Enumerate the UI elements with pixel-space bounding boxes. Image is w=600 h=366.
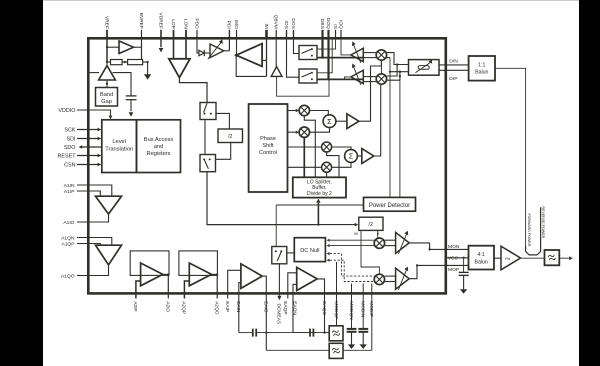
svg-text:DOQ: DOQ: [325, 18, 331, 29]
block LO Splitter Buffer Divide by 2: [293, 177, 346, 197]
wire internal to SWB: [317, 40, 332, 73]
resistor R2: [128, 60, 143, 65]
capacitor VCC bypass: [463, 258, 465, 272]
svg-text:VDREF: VDREF: [157, 13, 163, 29]
block divide-by-2 (LO): [218, 129, 243, 143]
svg-text:Σ: Σ: [327, 117, 332, 126]
wire DOS to switch SWA: [294, 40, 300, 54]
wire amp to cap C1: [113, 73, 131, 96]
svg-text:A1QO: A1QO: [61, 273, 75, 279]
mixer M4: [374, 274, 384, 284]
attenuator block: [409, 60, 440, 76]
svg-text:VDDIO: VDDIO: [58, 108, 75, 114]
capacitor MODQN bypass: [347, 328, 357, 330]
buffer T2: [362, 149, 374, 164]
filter block (output): [545, 250, 560, 265]
op-amp reference amp (up): [99, 66, 116, 80]
wire Q pair to M4 a (dashed): [330, 254, 375, 277]
capacitor MODIN bypass: [358, 328, 368, 330]
svg-text:PDO: PDO: [193, 18, 199, 29]
svg-text:VREF: VREF: [103, 16, 109, 29]
capacitor C1: [126, 95, 137, 97]
pin IOQ (top): [340, 30, 342, 40]
svg-text:A2IP: A2IP: [132, 301, 138, 311]
arrow C1 to registers: [130, 100, 132, 112]
wire EAIP input: [228, 270, 241, 298]
wire IOS to switch SWB: [287, 40, 300, 78]
wire sum2 to buffer T2: [357, 155, 361, 157]
wire stub chip edge to amp: [90, 72, 100, 74]
wire I pair to M3 a: [330, 239, 375, 241]
wire A2QO output: [212, 273, 218, 275]
svg-text:/2: /2: [369, 222, 374, 228]
wire A2IP input: [136, 281, 141, 299]
amplifier PA: [501, 246, 521, 270]
wire LON into amp: [185, 40, 187, 59]
wire QBVM down: [275, 40, 277, 67]
wire buffer out to BVREF: [134, 46, 142, 48]
wire PA output: [521, 257, 545, 259]
svg-text:Divide by 2: Divide by 2: [307, 191, 332, 197]
wire M2 to attenuator: [387, 65, 398, 77]
wire A1QO out: [77, 265, 109, 276]
pin VDREF (top): [160, 30, 162, 40]
svg-text:Translation: Translation: [105, 146, 133, 152]
block 4:1 Balun: [469, 246, 495, 270]
wire IS to SWA: [317, 40, 336, 50]
pin PDO (top): [196, 30, 198, 40]
wire MODQN: [351, 284, 353, 329]
block Power Detector: [364, 197, 416, 211]
arrow PSC to mixer MI1: [288, 110, 296, 112]
wire A1QN into amp: [77, 238, 112, 246]
wire LO to splitter: [207, 172, 315, 225]
svg-text:Level: Level: [112, 139, 126, 145]
op-amp error amp I: [241, 264, 262, 289]
wire M4 to T4 pair: [385, 275, 396, 277]
svg-text:Bus Access: Bus Access: [144, 137, 174, 143]
mixer M1 (I up-convert): [376, 50, 386, 60]
mixer MQ2: [322, 162, 332, 172]
wire amp to band gap: [106, 80, 108, 88]
op-amp main buffer (left): [236, 44, 262, 67]
wire EAQP input: [288, 273, 297, 299]
buffer stage (up): [271, 67, 282, 77]
wire tap to power detector 2: [399, 75, 401, 77]
wire Q pair to M4 b (dashed): [330, 260, 375, 281]
svg-text:Gap: Gap: [101, 99, 112, 105]
wire VGA2 to M2 pair: [363, 76, 376, 78]
wire tap to power detector 1: [389, 58, 391, 198]
wire buffer base notch: [262, 59, 266, 61]
pin DBS (top): [321, 30, 323, 40]
wire T4 to MOP: [409, 265, 417, 278]
wire VGA1 to M1 pair: [363, 52, 376, 54]
svg-text:A2QP: A2QP: [181, 301, 187, 314]
capacitor series Q: [309, 329, 311, 337]
wire T2 to mixer M2 LO: [374, 84, 381, 156]
mixer MI1: [299, 105, 309, 115]
svg-text:MOP: MOP: [448, 267, 459, 273]
wire M3 to T3 pair: [385, 239, 396, 241]
svg-text:90: 90: [354, 232, 358, 236]
capacitor series I: [252, 329, 254, 337]
svg-text:Shift: Shift: [262, 143, 274, 149]
filter block Q (to MODQP): [329, 326, 343, 341]
block Bus Access and Registers: [137, 120, 181, 173]
svg-text:Balun: Balun: [475, 70, 488, 76]
wire VGA to PDI: [224, 50, 230, 52]
pin PDI (top): [228, 30, 230, 40]
wire VDDIO to registers: [77, 110, 111, 116]
svg-text:DCMEAS: DCMEAS: [276, 304, 282, 325]
amplifier detector VGA: [210, 44, 224, 58]
wire diode to VGA: [204, 52, 210, 54]
wire filter I to MODIP: [343, 349, 372, 351]
wire T1 to mixer M1 LO: [359, 60, 382, 121]
wire divider to SW2: [216, 143, 231, 160]
svg-text:EAIO: EAIO: [263, 301, 269, 313]
wire EAIO to filter I: [266, 349, 329, 351]
wire MI1 to sum1: [310, 111, 329, 115]
svg-text:IM: IM: [263, 23, 269, 28]
pin VREF (top): [106, 30, 108, 40]
op-amp LO input (down): [169, 59, 190, 78]
arrow VDREF into chip: [160, 40, 162, 48]
wire MON out: [430, 248, 469, 250]
op-amp A1 I (down): [96, 196, 122, 214]
wire PSC to mixer MQ1: [288, 146, 322, 148]
ground VCC: [460, 289, 467, 294]
block Phase Shift Control: [249, 104, 288, 192]
svg-text:A1QP: A1QP: [61, 241, 74, 247]
svg-text:PA: PA: [505, 256, 510, 261]
wire bus Q (thick): [317, 78, 363, 80]
buffer T1: [347, 114, 359, 129]
svg-text:/2: /2: [228, 134, 233, 140]
svg-text:4:1: 4:1: [478, 252, 485, 258]
op-amp VREF buffer: [119, 41, 134, 54]
wire M1 to attenuator: [387, 53, 409, 65]
svg-text:Registers: Registers: [146, 151, 170, 157]
wire MI2 LO feed: [303, 137, 305, 177]
svg-text:A1IO: A1IO: [63, 220, 74, 226]
svg-text:Control: Control: [259, 150, 277, 156]
summer S2: [345, 150, 358, 163]
pin DOS (top): [293, 30, 295, 40]
svg-text:EAQO: EAQO: [321, 301, 327, 315]
pin LON (top): [185, 30, 187, 40]
wire MOP out: [417, 264, 469, 266]
pin IS (top): [335, 30, 337, 40]
node between resistors: [122, 61, 128, 63]
wire PSC to mixer MQ2: [288, 166, 322, 168]
pin QBVM (top): [275, 30, 277, 40]
node IMO junction: [235, 54, 238, 57]
wire A1IO out: [77, 214, 109, 222]
wire M1 LO chain to M2: [380, 60, 382, 74]
pin BVREF (top): [141, 30, 143, 40]
wire MQ2 LO feed: [326, 172, 328, 177]
svg-text:IMO: IMO: [233, 20, 239, 29]
arrow DCMEAS: [277, 296, 281, 300]
svg-text:LON: LON: [182, 19, 188, 29]
wire VGA2 apex to bus: [345, 77, 351, 80]
svg-text:DOS: DOS: [290, 18, 296, 28]
block DC Null: [294, 238, 325, 262]
chip boundary: [88, 38, 446, 293]
pin IOS (top): [286, 30, 288, 40]
amplifier T4: [396, 268, 410, 289]
directional coupler loop: [526, 207, 541, 255]
ground MODQN: [348, 344, 355, 349]
block divide-by-2 (output): [359, 217, 383, 230]
switch SW3 (DC null): [272, 247, 287, 264]
wire EAQN input: [293, 284, 297, 332]
svg-text:FORWARD POWER: FORWARD POWER: [527, 214, 531, 247]
svg-text:A1IP: A1IP: [64, 189, 75, 195]
feedback box amp1: [130, 251, 169, 276]
amplifier VGA2 (Q): [351, 70, 363, 84]
wire A2QP input: [184, 281, 189, 299]
block 1:1 Balun: [469, 56, 495, 81]
svg-text:BVREF: BVREF: [138, 13, 144, 29]
wire divider to M4: [361, 230, 379, 274]
wire MQ1 LO feed: [327, 152, 339, 177]
mixer M3: [374, 238, 384, 248]
wire MODIN: [362, 284, 364, 329]
filter block I (to MODIP): [329, 343, 343, 358]
right black bar: [579, 0, 600, 366]
svg-text:IOS: IOS: [283, 21, 289, 29]
arrow PSC to mixer MI2: [288, 131, 296, 133]
wire DIN: [439, 64, 469, 66]
wire sum1 to buffer T1: [336, 120, 347, 122]
amplifier T3: [396, 232, 410, 253]
svg-text:IS: IS: [332, 24, 338, 29]
wire DOQ down: [327, 40, 329, 80]
wire MQ2 to sum2: [332, 162, 351, 167]
svg-text:EAIN: EAIN: [235, 301, 241, 313]
svg-text:and: and: [154, 144, 164, 150]
svg-text:CSN: CSN: [64, 162, 75, 168]
svg-text:A1QN: A1QN: [61, 235, 75, 241]
pin IMO (top): [236, 30, 238, 40]
svg-text:REVERSE POWER: REVERSE POWER: [541, 207, 545, 239]
wire EAQN to cap: [293, 332, 309, 334]
feedback box amp2: [179, 251, 218, 276]
wire MODQP up into chip: [336, 262, 338, 326]
svg-text:EAQN: EAQN: [292, 301, 298, 315]
mixer M2 (Q up-convert): [376, 74, 386, 84]
arrow LO into splitter: [317, 203, 319, 225]
svg-text:A2IO: A2IO: [165, 301, 171, 312]
wire MI2 to sum1: [310, 128, 330, 133]
wire balun to coupler: [495, 68, 526, 247]
wire EAIN to cap: [239, 332, 252, 334]
wire power detector to DC switch: [275, 205, 277, 247]
wire SW1 to SW2: [204, 120, 206, 155]
block Level Translation: [102, 120, 137, 173]
switch SWB: [299, 69, 317, 83]
switch SW2 (LO select): [200, 155, 216, 172]
wire SW1 to divider: [216, 113, 229, 129]
wire bus I (thick): [317, 57, 363, 59]
pin IM (top): [265, 30, 268, 40]
mixer MI2: [299, 127, 309, 137]
wire VCC: [446, 257, 469, 259]
svg-text:EAQP: EAQP: [282, 301, 288, 314]
svg-text:Band: Band: [100, 92, 113, 98]
wire VREF net: [106, 30, 108, 62]
svg-text:QBVM: QBVM: [273, 15, 279, 29]
block Band Gap: [96, 88, 118, 107]
pin DOQ (top): [327, 30, 329, 40]
wire A1IN into amp: [77, 185, 112, 196]
svg-text:SDO: SDO: [64, 145, 76, 151]
amplifier VGA1 (I): [351, 48, 363, 62]
summer S1: [323, 115, 336, 128]
wire A1IP into amp: [77, 191, 100, 196]
svg-text:DBS: DBS: [319, 19, 325, 29]
svg-text:1:1: 1:1: [478, 62, 485, 68]
wire cap to EAIO node: [256, 332, 329, 334]
wire LO to second divider: [318, 224, 354, 226]
svg-text:Phase: Phase: [260, 136, 276, 142]
wire EAIO output: [262, 276, 266, 350]
wire DCMEAS down: [278, 264, 280, 296]
wire MQ1 to sum2: [332, 147, 351, 150]
wire T3 to MON: [409, 243, 429, 250]
svg-text:RESET: RESET: [58, 153, 77, 159]
svg-text:Power Detector: Power Detector: [369, 203, 410, 209]
node after R2: [143, 61, 148, 63]
svg-text:SCK: SCK: [64, 127, 75, 133]
op-amp A1 Q (down): [96, 245, 122, 265]
node EAQO join: [323, 331, 325, 333]
svg-text:LOP: LOP: [170, 19, 176, 29]
pin LOP (top): [173, 30, 175, 40]
switch SWA: [299, 46, 317, 60]
svg-text:DIP: DIP: [449, 76, 457, 82]
wire LOP into amp: [173, 40, 175, 59]
wire LO amp to switch SW1: [179, 78, 207, 103]
op-amp error amp Q: [297, 267, 318, 290]
wire SW3 to DC Null: [287, 252, 295, 254]
mixer MQ1: [322, 142, 332, 152]
wire into power detector: [276, 204, 363, 206]
op-amp A2 I: [141, 263, 163, 286]
wire IM down: [266, 40, 268, 77]
wire DBS down: [321, 40, 323, 58]
left black bar: [0, 0, 43, 366]
wire balun to PA: [494, 257, 501, 259]
ground MODIN: [360, 344, 367, 349]
svg-text:Σ: Σ: [349, 152, 354, 161]
svg-text:DIN: DIN: [449, 59, 458, 65]
svg-text:A2QO: A2QO: [214, 301, 220, 315]
wire A2IO output: [163, 273, 169, 275]
top page edge line: [43, 0, 579, 2]
svg-text:PDI: PDI: [226, 21, 232, 29]
svg-text:MODIN: MODIN: [360, 301, 366, 318]
wire DIP: [439, 69, 469, 71]
wire buffer feedback loop: [236, 55, 266, 76]
wire EAIN input: [239, 283, 241, 333]
arrow RF output: [559, 257, 569, 259]
svg-text:IOQ: IOQ: [337, 20, 343, 29]
diode D1: [199, 50, 204, 56]
svg-text:MON: MON: [448, 244, 460, 250]
svg-text:Balun: Balun: [475, 259, 488, 265]
svg-text:DC Null: DC Null: [300, 248, 319, 254]
wire buffer tee to bus: [277, 76, 329, 96]
arrow to internal circuits: [147, 62, 149, 75]
svg-text:VCC: VCC: [448, 255, 459, 261]
wire EAQO output: [317, 279, 324, 333]
wire A1QP into amp: [77, 244, 100, 246]
node LO tee: [317, 223, 319, 225]
svg-text:MODQN: MODQN: [348, 301, 354, 320]
resistor R1: [111, 60, 123, 65]
svg-text:EAIP: EAIP: [224, 301, 230, 312]
op-amp A2 Q: [189, 263, 211, 286]
wire divider to M3: [377, 230, 379, 238]
wire I pair to M3 b: [330, 245, 375, 247]
svg-text:MODIP: MODIP: [368, 301, 374, 317]
svg-text:MODQP: MODQP: [333, 301, 339, 319]
wire MODIP up into chip: [371, 284, 373, 351]
wire IOQ to VGA1 apex: [341, 40, 351, 55]
svg-text:SDI: SDI: [67, 136, 76, 142]
switch SW1 (LO bypass): [200, 103, 216, 120]
wire MI1 LO feed: [304, 116, 315, 178]
wire PDO to diode: [197, 40, 199, 53]
svg-text:A1IN: A1IN: [64, 183, 75, 189]
